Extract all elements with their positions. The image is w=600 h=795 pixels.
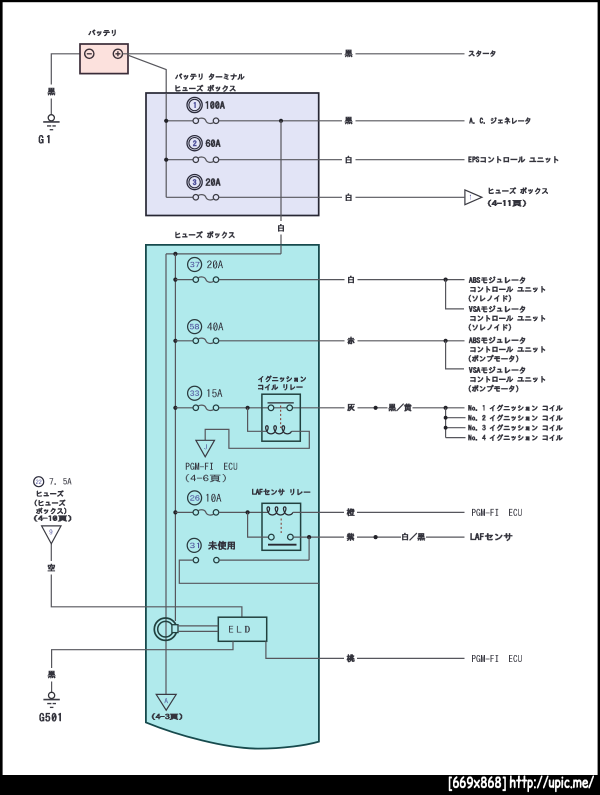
EPS control unit label	[468, 156, 558, 163]
wire colour label kuro	[342, 114, 356, 128]
wire colour label shiro/kuro (white/black)	[402, 533, 425, 541]
wire colour label kuro (black)	[345, 50, 353, 58]
relay contact terminals	[268, 405, 274, 411]
connector J triangle	[196, 440, 215, 457]
junction purple to white/black	[374, 535, 378, 539]
wire ELD to ground G501	[52, 641, 233, 692]
connector 9 triangle	[42, 526, 61, 544]
ABS modulator control unit (solenoid) label	[469, 276, 526, 284]
connector triangle 1 to fuse box page 4-11	[465, 190, 482, 205]
battery minus terminal	[85, 49, 94, 58]
junction grey/black-yellow	[374, 406, 378, 410]
fuse 26 10A	[188, 491, 202, 505]
wire colour label kuro/ki (black/yellow)	[388, 403, 412, 411]
No.1-4 ignition coil labels	[468, 404, 563, 411]
LAF relay contact input wire	[248, 512, 269, 537]
wire colour label dai (orange)	[347, 508, 355, 516]
twin wires ring to ELD	[178, 626, 218, 632]
wire fuse 1 row down to fuse box (shiro/white)	[280, 121, 282, 245]
wire fuse 31 left bypass	[179, 560, 319, 583]
node G501 label	[39, 713, 61, 722]
wire colour label shiro	[342, 191, 356, 205]
ground G1	[48, 115, 54, 121]
battery terminal fuse box	[146, 93, 319, 216]
fuse 58 row wire	[173, 339, 177, 343]
ELD unit	[218, 617, 266, 641]
starter label	[469, 50, 496, 56]
wire LAF relay coil to PGM-FI ECU (dai/orange)	[293, 511, 465, 513]
LAF sensor relay label	[252, 489, 310, 496]
wire colour label aka (red)	[347, 337, 354, 345]
bus wire 2 (fuse rows)	[174, 254, 176, 621]
fuse 37 20A	[188, 258, 202, 272]
fuse 33 row wire	[173, 406, 177, 410]
wire feed into fuse box buses	[166, 245, 281, 254]
PGM-FI ECU label	[472, 509, 522, 516]
wire relay coil to PGM-FI ECU (connector J)	[205, 429, 309, 448]
fuse 3 wire row	[166, 196, 193, 198]
battery	[80, 44, 128, 74]
wire colour label shiro	[342, 153, 356, 167]
fan-out wires to ignition coils	[446, 408, 466, 438]
branch wire to VSA modulator (solenoid)	[446, 280, 464, 309]
wire battery minus to ground G1	[51, 54, 84, 115]
relay coil	[266, 426, 292, 434]
fuse 2 60A	[187, 136, 202, 151]
fuse 31 holder terminals	[193, 557, 198, 562]
junction ignition coil fan-out	[444, 406, 448, 410]
LAF relay coil	[267, 507, 293, 515]
ignition coil relay label	[258, 375, 306, 382]
battery plus terminal	[113, 49, 122, 58]
A.C. generator label	[469, 117, 531, 124]
wire colour label kuro (black)	[47, 88, 55, 96]
fuse 2 wire row	[166, 159, 193, 161]
ground G501	[49, 692, 55, 698]
connector A triangle to page 4-3	[156, 694, 176, 710]
wire ELD output (momo/pink) to PGM-FI ECU	[266, 641, 465, 658]
wire colour label shiro	[348, 276, 354, 284]
wire from connector 9 to ELD (top feed)	[51, 544, 242, 617]
wire colour label kuro (black)	[48, 671, 56, 679]
wire fuse 31 right to LAF output	[219, 537, 309, 560]
wire battery plus to battery terminal fuse box	[128, 55, 166, 93]
junction to LAF relay	[246, 510, 250, 514]
fuse 1 wire row	[166, 120, 193, 122]
junction to ignition coil relay	[246, 406, 250, 410]
relay coil wire from junction	[248, 408, 267, 432]
fuse 3 20A	[187, 175, 202, 190]
branch wire to VSA modulator (pump motor)	[446, 341, 464, 369]
ELD current sensor ring	[154, 618, 176, 640]
LAF relay output wire (murasaki/purple)	[293, 536, 464, 538]
junction ABS/VSA solenoid branch	[444, 278, 448, 282]
node G1 label	[39, 135, 50, 144]
junction LAF output	[307, 535, 311, 539]
wire colour label murasaki (purple)	[347, 533, 355, 541]
LAF sensor label	[470, 533, 512, 541]
PGM-FI ECU page 4-6 label	[186, 463, 237, 470]
fuse 33 15A	[188, 386, 202, 400]
fuse 31 (unused)	[187, 538, 201, 552]
PGM-FI ECU label	[472, 655, 522, 662]
fuse 37 row wire	[173, 278, 177, 282]
wire colour label momo (pink)	[347, 654, 355, 662]
junction bus2 top	[173, 252, 177, 256]
fuse 22 7.5A label	[34, 477, 44, 487]
fuse 1 100A	[187, 97, 202, 112]
wire colour label sora (sky blue)	[47, 564, 55, 572]
bus wire 1 (left, to ELD ring and connector A)	[165, 254, 167, 694]
VSA modulator control unit (solenoid) label	[469, 305, 526, 313]
LAF sensor relay U2	[262, 503, 301, 550]
fuse 58 40A	[188, 320, 202, 334]
wire colour label hai (grey)	[347, 404, 355, 411]
fuse box (main, cyan)	[146, 245, 319, 749]
junction on fuse 1 row	[279, 119, 283, 123]
LAF relay contact terminals	[268, 534, 274, 540]
junction ABS/VSA pump motor branch	[444, 339, 448, 343]
ignition coil relay U1	[262, 394, 300, 441]
ABS modulator control unit (pump motor) label	[469, 337, 526, 345]
VSA modulator control unit (pump motor) label	[469, 366, 526, 374]
fuse 26 row wire	[173, 510, 177, 514]
wire battery plus to starter	[123, 53, 465, 55]
bus wire in battery terminal fuse box	[165, 93, 167, 197]
